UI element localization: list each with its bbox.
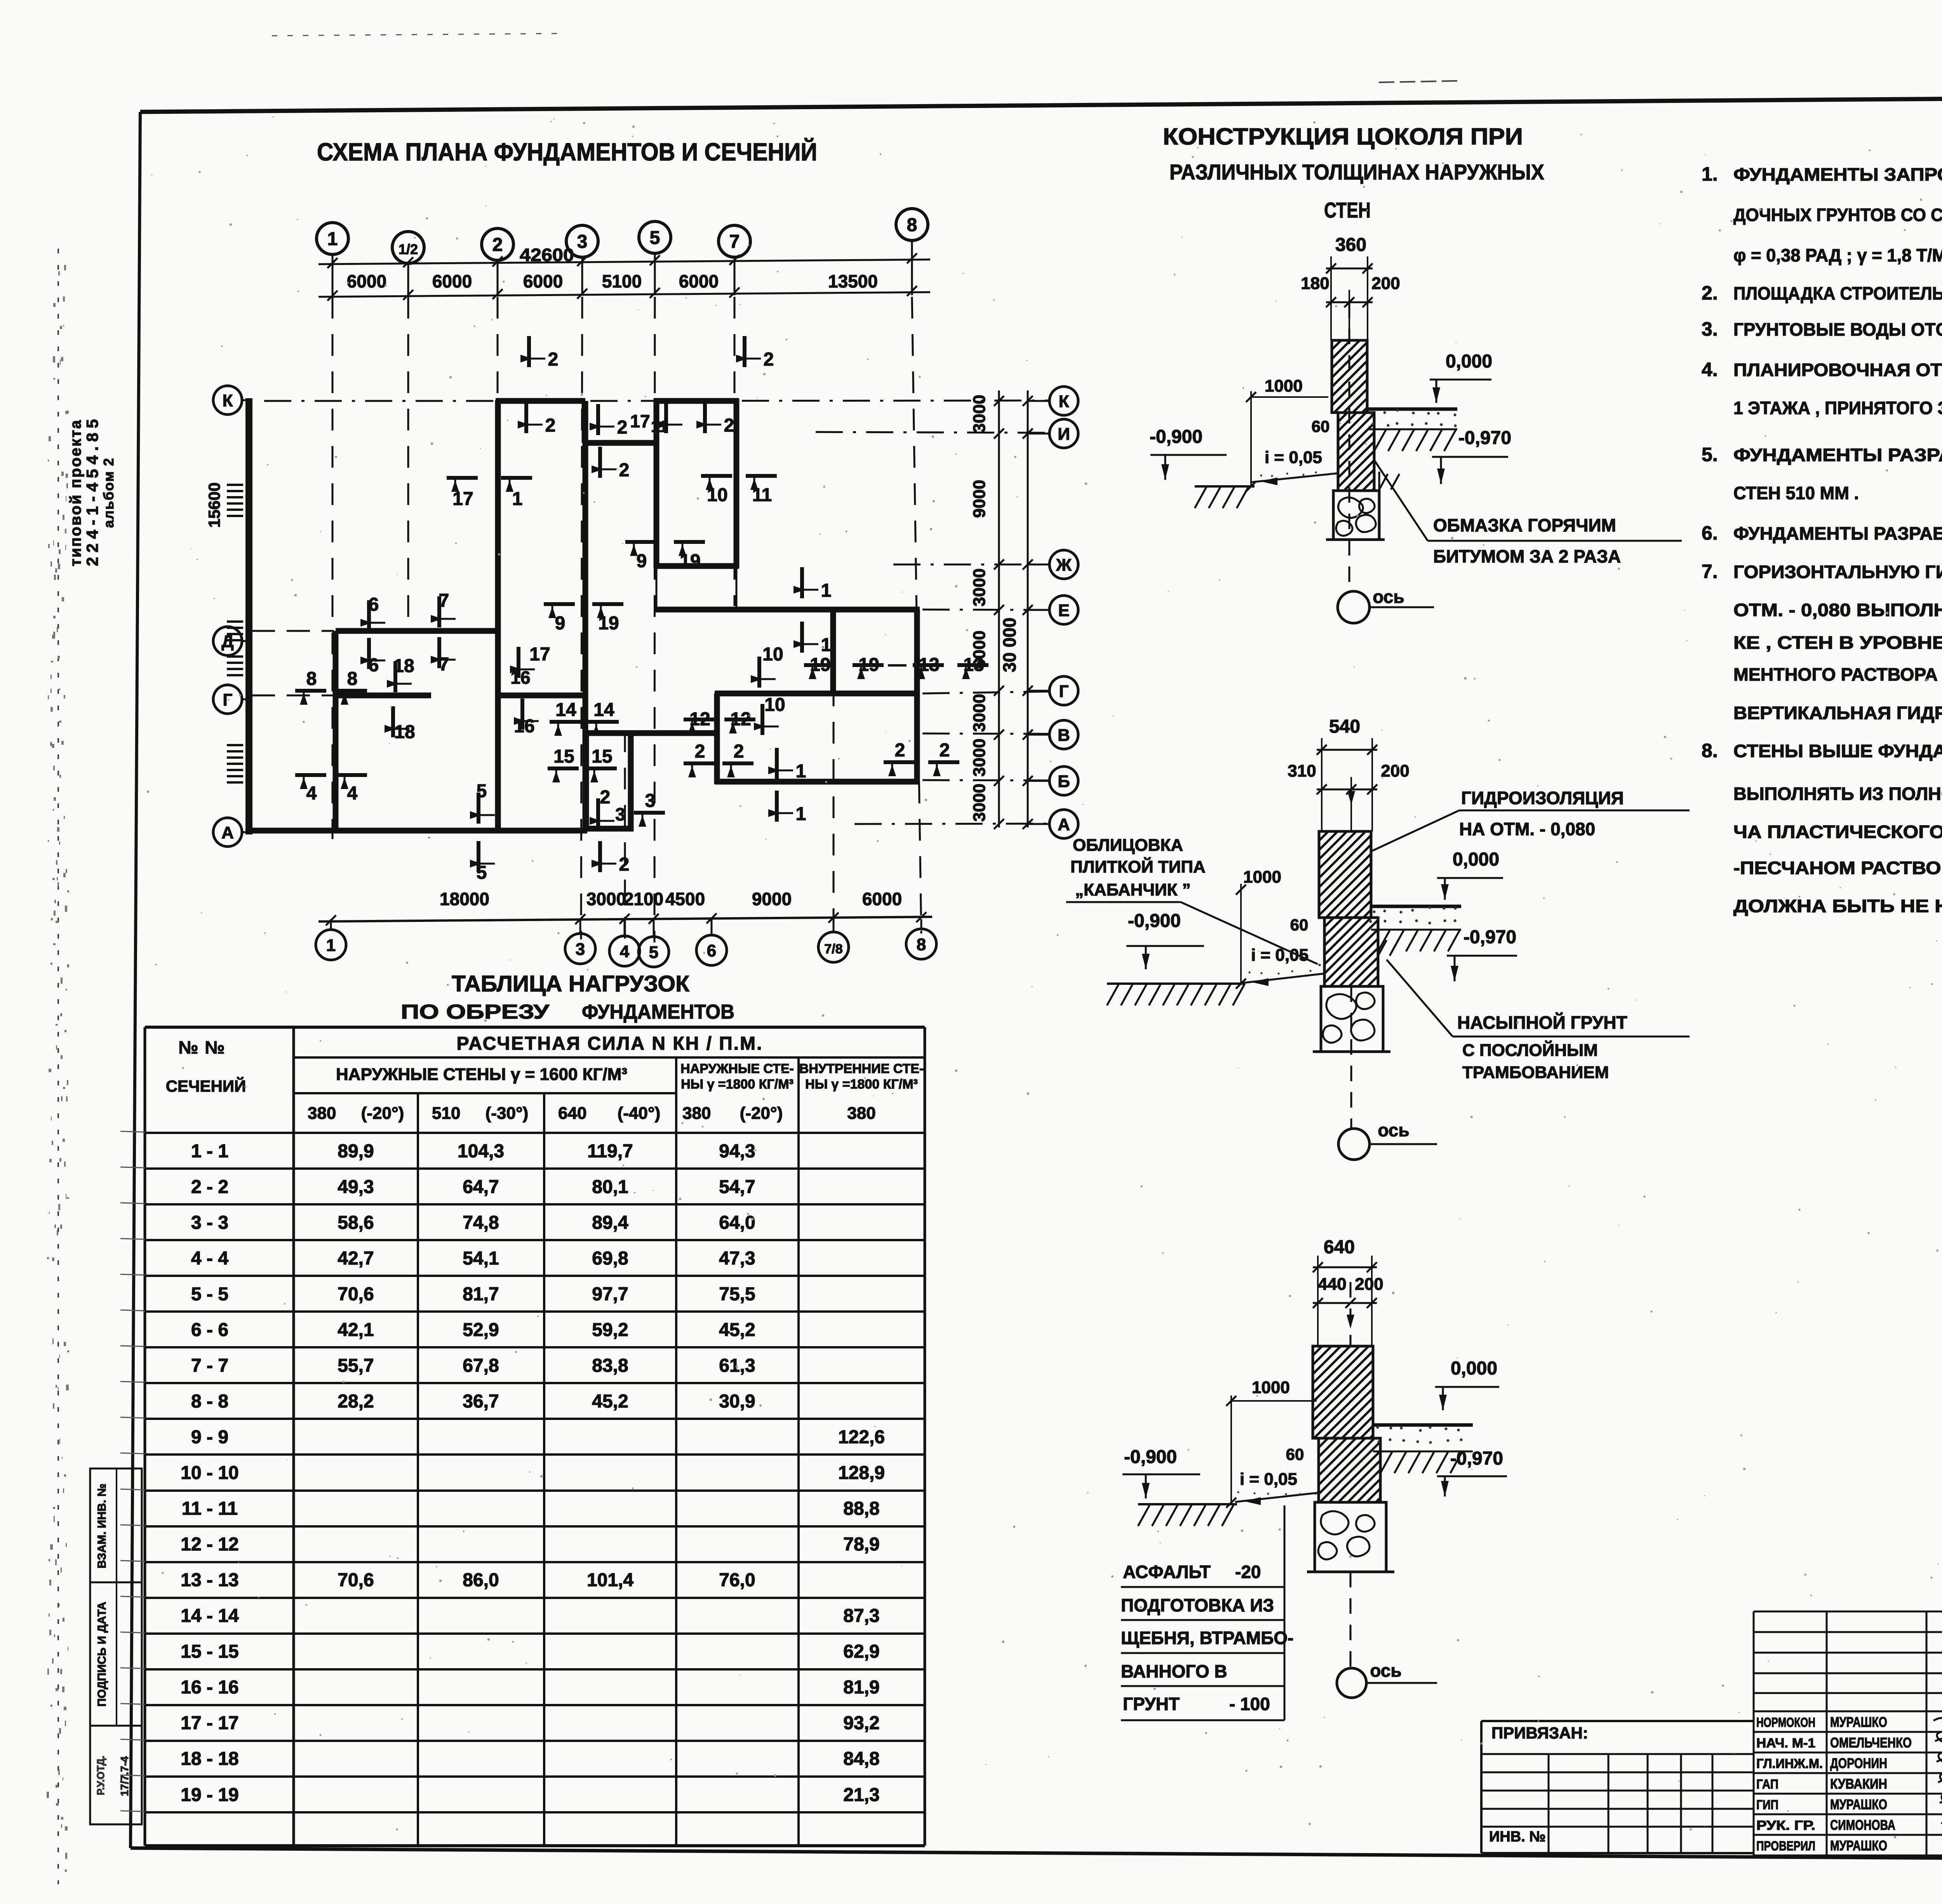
sheet frame left border <box>131 112 140 1848</box>
svg-text:ВЗАМ. ИНВ. №: ВЗАМ. ИНВ. № <box>96 1484 108 1568</box>
svg-text:Р.У.ОТД.: Р.У.ОТД. <box>95 1756 106 1795</box>
svg-text:8: 8 <box>347 669 358 689</box>
svg-text:8: 8 <box>907 215 917 235</box>
wall: tall right block <box>654 399 660 568</box>
wall: bottom outer (axis А) <box>246 828 587 834</box>
svg-text:83,8: 83,8 <box>592 1355 628 1376</box>
svg-text:7.: 7. <box>1702 561 1718 582</box>
row axis lines <box>264 400 493 402</box>
svg-text:3000: 3000 <box>970 694 989 732</box>
svg-text:ЧА ПЛАСТИЧЕСКОГО ПРЕССОВА: ЧА ПЛАСТИЧЕСКОГО ПРЕССОВАНИЯ (ГОСТ 530-8… <box>1733 822 1942 842</box>
svg-text:„КАБАНЧИК ”: „КАБАНЧИК ” <box>1075 880 1191 899</box>
title block: binding box (left) <box>1481 1720 1754 1722</box>
svg-text:МУРАШКО: МУРАШКО <box>1830 1838 1887 1853</box>
svg-text:10: 10 <box>762 644 783 665</box>
svg-text:1000: 1000 <box>1265 376 1303 395</box>
wall: small block left <box>583 733 589 831</box>
svg-text:15: 15 <box>592 746 612 767</box>
bottom dimension line <box>318 917 932 922</box>
svg-text:13: 13 <box>963 655 984 675</box>
svg-text:12 - 12: 12 - 12 <box>181 1534 238 1555</box>
s2 floor slab <box>1371 905 1461 908</box>
svg-text:ПЛАНИРОВОЧНАЯ ОТМЕТКА ЗЕМЛ: ПЛАНИРОВОЧНАЯ ОТМЕТКА ЗЕМЛИ ОТНОСИТЕЛЬНО… <box>1733 360 1942 380</box>
svg-text:НАРУЖНЫЕ СТЕ-: НАРУЖНЫЕ СТЕ- <box>680 1061 794 1076</box>
svg-text:55,7: 55,7 <box>338 1355 374 1376</box>
svg-text:СИМОНОВА: СИМОНОВА <box>1830 1817 1895 1833</box>
svg-text:89,4: 89,4 <box>592 1212 628 1233</box>
s3 material callouts <box>1284 1505 1286 1720</box>
svg-text:1: 1 <box>796 804 806 824</box>
wall: axis В horizontal <box>586 730 717 736</box>
svg-text:6: 6 <box>369 594 379 615</box>
top margin stray dashes <box>272 33 567 36</box>
svg-text:9: 9 <box>637 551 647 571</box>
svg-text:КОНСТРУКЦИЯ ЦОКОЛЯ ПРИ: КОНСТРУКЦИЯ ЦОКОЛЯ ПРИ <box>1163 124 1523 150</box>
svg-text:47,3: 47,3 <box>719 1248 755 1269</box>
svg-text:42,1: 42,1 <box>338 1320 374 1340</box>
svg-text:200: 200 <box>1355 1275 1383 1294</box>
svg-text:6000: 6000 <box>432 271 472 291</box>
svg-text:ПРОВЕРИЛ: ПРОВЕРИЛ <box>1756 1839 1815 1853</box>
svg-text:14 - 14: 14 - 14 <box>181 1606 239 1626</box>
svg-text:75,5: 75,5 <box>719 1284 755 1305</box>
wall: central block left (axis 2) <box>495 400 501 831</box>
svg-text:9000: 9000 <box>752 889 792 909</box>
svg-text:(-20°): (-20°) <box>361 1104 404 1123</box>
svg-text:i = 0,05: i = 0,05 <box>1240 1470 1297 1489</box>
column axis dash lines <box>332 297 334 839</box>
svg-text:ВАННОГО В: ВАННОГО В <box>1121 1661 1227 1681</box>
svg-text:ГРУНТОВЫЕ ВОДЫ ОТСУТСТВУЮТ.: ГРУНТОВЫЕ ВОДЫ ОТСУТСТВУЮТ. <box>1733 319 1942 340</box>
svg-text:-0,970: -0,970 <box>1450 1448 1503 1469</box>
svg-text:Б: Б <box>1058 772 1070 791</box>
svg-text:93,2: 93,2 <box>843 1713 879 1733</box>
column axis bubble 3 (top) <box>566 225 598 257</box>
svg-text:4 - 4: 4 - 4 <box>191 1248 228 1269</box>
svg-text:88,8: 88,8 <box>843 1498 879 1519</box>
svg-text:18 - 18: 18 - 18 <box>181 1749 238 1769</box>
svg-text:60: 60 <box>1286 1445 1304 1463</box>
svg-text:87,3: 87,3 <box>843 1606 879 1626</box>
svg-text:81,9: 81,9 <box>843 1677 879 1698</box>
svg-text:1: 1 <box>821 635 832 655</box>
svg-text:7 - 7: 7 - 7 <box>191 1355 228 1376</box>
svg-text:ДОЛЖНА БЫТЬ НЕ НИЖЕ М: ДОЛЖНА БЫТЬ НЕ НИЖЕ МРЗ 35 . <box>1733 896 1942 916</box>
svg-text:58,6: 58,6 <box>338 1212 374 1233</box>
title block: signature rows <box>1754 1711 1942 1712</box>
svg-text:380: 380 <box>847 1104 875 1123</box>
svg-text:5 - 5: 5 - 5 <box>191 1284 228 1305</box>
svg-text:11 - 11: 11 - 11 <box>182 1498 238 1519</box>
svg-text:РАЗЛИЧНЫХ ТОЛЩИНАХ НАРУЖНЫХ: РАЗЛИЧНЫХ ТОЛЩИНАХ НАРУЖНЫХ <box>1169 160 1544 184</box>
row axis bubble А (right) <box>1049 810 1078 838</box>
svg-text:ЩЕБНЯ, ВТРАМБО-: ЩЕБНЯ, ВТРАМБО- <box>1121 1628 1293 1648</box>
s3 foundation rubble <box>1315 1502 1386 1572</box>
svg-text:17 - 17: 17 - 17 <box>181 1713 238 1733</box>
svg-text:ПО ОБРЕЗУ: ПО ОБРЕЗУ <box>401 1001 550 1023</box>
svg-text:3: 3 <box>576 940 585 959</box>
row axis bubble Е (right) <box>1049 596 1078 624</box>
svg-text:18: 18 <box>394 722 415 742</box>
svg-text:1 ЭТАЖА , ПРИНЯТОГО ЗА 0,00: 1 ЭТАЖА , ПРИНЯТОГО ЗА 0,000 , РАВНА - 0… <box>1733 398 1942 418</box>
svg-text:Ж: Ж <box>1056 556 1072 575</box>
svg-text:11: 11 <box>651 417 668 435</box>
svg-text:СТЕН 510 ММ .: СТЕН 510 ММ . <box>1733 483 1859 503</box>
column axis bubble 5 (bottom) <box>639 937 669 967</box>
column axis bubble 7 (top) <box>719 225 750 257</box>
svg-text:-0,900: -0,900 <box>1128 911 1181 931</box>
svg-text:2: 2 <box>619 854 630 875</box>
svg-text:19: 19 <box>810 655 830 675</box>
row axis bubble Г (left) <box>213 685 242 714</box>
wall: vertical at axis 1/2 lower <box>333 631 339 831</box>
svg-text:2: 2 <box>619 460 630 481</box>
svg-text:1: 1 <box>327 229 338 249</box>
svg-text:10: 10 <box>764 695 785 715</box>
svg-text:45,2: 45,2 <box>592 1391 628 1412</box>
svg-text:11: 11 <box>752 485 772 505</box>
svg-text:21,3: 21,3 <box>843 1785 879 1805</box>
svg-text:РУК. ГР.: РУК. ГР. <box>1756 1818 1815 1833</box>
svg-text:ГРУНТ: ГРУНТ <box>1123 1694 1180 1714</box>
svg-text:2: 2 <box>492 235 503 255</box>
svg-text:60: 60 <box>1290 916 1309 934</box>
svg-text:0,000: 0,000 <box>1446 351 1492 372</box>
s3 ground line <box>1138 1503 1237 1505</box>
svg-text:380: 380 <box>682 1104 711 1123</box>
svg-text:ГИП: ГИП <box>1756 1798 1778 1812</box>
svg-text:ГАП: ГАП <box>1756 1777 1778 1792</box>
svg-text:-0,900: -0,900 <box>1124 1447 1177 1467</box>
svg-text:-20: -20 <box>1235 1562 1261 1582</box>
svg-text:19: 19 <box>680 551 700 571</box>
s1 foundation rubble <box>1333 491 1379 540</box>
svg-text:13500: 13500 <box>828 271 878 291</box>
svg-text:1: 1 <box>796 761 806 782</box>
svg-text:ПЛИТКОЙ ТИПА: ПЛИТКОЙ ТИПА <box>1070 857 1206 876</box>
svg-text:200: 200 <box>1371 274 1400 293</box>
column axis bubble 4 (bottom) <box>609 936 640 966</box>
svg-text:НАЧ. М-1: НАЧ. М-1 <box>1756 1736 1815 1751</box>
svg-text:49,3: 49,3 <box>338 1177 374 1197</box>
svg-text:ФУНДАМЕНТОВ: ФУНДАМЕНТОВ <box>582 1001 734 1023</box>
svg-text:НЫ γ =1800 КГ/М³: НЫ γ =1800 КГ/М³ <box>805 1077 918 1092</box>
svg-text:14: 14 <box>593 700 614 720</box>
svg-text:5: 5 <box>477 862 487 883</box>
svg-text:Г: Г <box>223 690 233 709</box>
svg-text:С ПОСЛОЙНЫМ: С ПОСЛОЙНЫМ <box>1462 1040 1598 1060</box>
svg-text:67,8: 67,8 <box>463 1355 499 1376</box>
wall: stub below Е <box>830 612 836 696</box>
wall: small block bottom <box>583 826 633 832</box>
svg-text:1000: 1000 <box>1243 868 1281 887</box>
svg-text:ПЛОЩАДКА СТРОИТЕЛЬСТВА СО: ПЛОЩАДКА СТРОИТЕЛЬСТВА СО СПОКОЙНЫМ РЕЛЬ… <box>1733 283 1942 303</box>
svg-text:КУВАКИН: КУВАКИН <box>1830 1776 1887 1792</box>
svg-text:СТЕН: СТЕН <box>1324 198 1371 222</box>
svg-text:-0,970: -0,970 <box>1463 927 1516 948</box>
svg-text:ГОРИЗОНТАЛЬНУЮ ГИДРОИЗОЛЯЦИЮ: ГОРИЗОНТАЛЬНУЮ ГИДРОИЗОЛЯЦИЮ СТЕН В УРОВ… <box>1733 562 1942 582</box>
svg-text:ПОДГОТОВКА ИЗ: ПОДГОТОВКА ИЗ <box>1121 1595 1274 1615</box>
svg-text:5: 5 <box>477 781 487 801</box>
svg-text:ОМЕЛЬЧЕНКО: ОМЕЛЬЧЕНКО <box>1830 1735 1912 1751</box>
svg-text:МУРАШКО: МУРАШКО <box>1830 1796 1887 1812</box>
svg-text:70,6: 70,6 <box>338 1284 374 1305</box>
svg-text:А: А <box>221 823 234 842</box>
svg-text:ПОДПИСЬ И ДАТА: ПОДПИСЬ И ДАТА <box>96 1602 108 1707</box>
sheet frame top border <box>140 94 1942 112</box>
s2 fill soil callout <box>1387 960 1453 1036</box>
svg-text:i = 0,05: i = 0,05 <box>1265 448 1322 467</box>
row axis bubble А (left) <box>213 818 242 847</box>
top dimension line 1 <box>318 260 930 264</box>
svg-text:84,8: 84,8 <box>843 1749 879 1769</box>
svg-text:ФУНДАМЕНТЫ ЗАПРОЕКТИРОВАНЫ Д: ФУНДАМЕНТЫ ЗАПРОЕКТИРОВАНЫ ДЛЯ СУХИХ НЕП… <box>1733 164 1942 185</box>
svg-text:ВЫПОЛНЯТЬ ИЗ ПОЛНОТЕЛОГО: ВЫПОЛНЯТЬ ИЗ ПОЛНОТЕЛОГО КРАСНОГО ХОРОШО… <box>1733 784 1942 804</box>
svg-text:-0,970: -0,970 <box>1458 428 1511 448</box>
svg-text:14: 14 <box>555 700 576 720</box>
title block: signatures squiggles <box>1933 1718 1942 1742</box>
svg-text:№ №: № № <box>178 1037 225 1057</box>
svg-text:2: 2 <box>695 741 705 762</box>
svg-text:94,3: 94,3 <box>719 1141 755 1162</box>
svg-text:1.: 1. <box>1702 163 1718 185</box>
svg-text:76,0: 76,0 <box>719 1570 755 1590</box>
svg-text:ИНВ. №: ИНВ. № <box>1489 1829 1546 1845</box>
svg-text:70,6: 70,6 <box>338 1570 374 1590</box>
svg-text:36,7: 36,7 <box>463 1391 499 1412</box>
s2 wall (hatched) <box>1319 831 1371 918</box>
svg-text:5: 5 <box>650 228 660 248</box>
svg-text:МЕНТНОГО РАСТВОРА СОСТАВ: МЕНТНОГО РАСТВОРА СОСТАВА 1:2 . <box>1733 664 1942 685</box>
svg-text:19: 19 <box>598 613 619 634</box>
wall: axis Д horizontal <box>336 628 500 634</box>
svg-text:4.: 4. <box>1702 359 1718 380</box>
row axis bubble К (left) <box>213 386 242 415</box>
svg-text:4: 4 <box>620 942 630 961</box>
svg-text:φ = 0,38 РАД ; γ = 1,8 Т/М³: φ = 0,38 РАД ; γ = 1,8 Т/М³ ; Е = 15 МПа… <box>1733 245 1942 265</box>
scan page-edge shadow line <box>57 249 59 1884</box>
svg-text:8: 8 <box>306 669 317 689</box>
column axis bubble 8 (top) <box>896 209 928 240</box>
svg-text:7: 7 <box>439 591 449 611</box>
s3 axis bubble <box>1350 1572 1352 1668</box>
wall: big right block top (axis Г) <box>715 691 920 697</box>
svg-text:Г: Г <box>1059 682 1069 701</box>
svg-text:(-40°): (-40°) <box>618 1104 661 1123</box>
svg-text:3000: 3000 <box>586 889 626 909</box>
svg-text:3000: 3000 <box>970 568 989 606</box>
svg-text:5.: 5. <box>1702 444 1718 465</box>
svg-text:ФУНДАМЕНТЫ РАЗРАБОТАНЫ ДЛЯ: ФУНДАМЕНТЫ РАЗРАБОТАНЫ ДЛЯ ЗДАНИЯ С ТОЛЩ… <box>1733 445 1942 465</box>
svg-text:альбом 2: альбом 2 <box>101 457 117 528</box>
svg-text:119,7: 119,7 <box>587 1141 633 1162</box>
svg-text:2: 2 <box>548 349 559 370</box>
svg-text:1/2: 1/2 <box>398 241 418 257</box>
load table grid <box>145 1026 925 1029</box>
svg-text:-0,900: -0,900 <box>1150 427 1202 447</box>
svg-text:2: 2 <box>940 740 950 761</box>
svg-text:17: 17 <box>529 644 550 665</box>
svg-text:ОБМАЗКА ГОРЯЧИМ: ОБМАЗКА ГОРЯЧИМ <box>1433 515 1616 535</box>
wall hatch ladders (left outer wall) <box>227 484 243 486</box>
svg-text:10 - 10: 10 - 10 <box>181 1463 238 1483</box>
column axis bubble 1 (top) <box>317 223 348 254</box>
svg-text:16 - 16: 16 - 16 <box>181 1677 238 1698</box>
svg-text:42,7: 42,7 <box>338 1248 374 1269</box>
svg-text:18000: 18000 <box>440 889 489 909</box>
svg-text:2 2 4 - 1 - 4 5 4 . 8 5: 2 2 4 - 1 - 4 5 4 . 8 5 <box>83 419 101 566</box>
svg-text:4: 4 <box>347 783 358 804</box>
svg-text:64,0: 64,0 <box>719 1212 755 1233</box>
column axis bubble 1/2 (top) <box>392 232 424 263</box>
svg-text:- 100: - 100 <box>1229 1694 1270 1714</box>
svg-text:45,2: 45,2 <box>719 1320 755 1340</box>
svg-text:2: 2 <box>600 787 611 808</box>
svg-text:6: 6 <box>707 941 716 960</box>
svg-text:19 - 19: 19 - 19 <box>181 1785 238 1805</box>
svg-text:510: 510 <box>432 1104 460 1123</box>
top dimension line 2 <box>318 292 930 297</box>
wall: central block Г crossing <box>498 693 585 699</box>
svg-text:12: 12 <box>730 709 751 730</box>
svg-text:3: 3 <box>615 804 625 824</box>
row axis bubble И (right) <box>1049 419 1078 448</box>
left edge scan fuzz <box>47 265 69 1872</box>
svg-text:КЕ , СТЕН В УРОВНЕ ОТМЕТО: КЕ , СТЕН В УРОВНЕ ОТМЕТОК - 0,900 ; - 0… <box>1733 632 1942 653</box>
svg-text:ОБЛИЦОВКА: ОБЛИЦОВКА <box>1073 836 1183 855</box>
svg-text:18: 18 <box>393 656 414 676</box>
svg-text:60: 60 <box>1312 417 1330 435</box>
table row-line left stubs <box>120 1131 145 1132</box>
svg-text:ось: ось <box>1378 1120 1409 1140</box>
row axis bubble В (right) <box>1049 720 1078 749</box>
s1 bitumen coating callout <box>1375 461 1428 541</box>
svg-text:ОТМ. - 0,080 ВЫПОЛНЯТЬ ИЗ: ОТМ. - 0,080 ВЫПОЛНЯТЬ ИЗ 2ˣ СЛОЕВ ГИДРО… <box>1733 600 1942 620</box>
wall: big right block left <box>714 693 720 784</box>
sheet frame bottom border <box>131 1848 1942 1861</box>
svg-text:8: 8 <box>917 935 926 954</box>
svg-text:9 - 9: 9 - 9 <box>191 1427 228 1448</box>
column axis bubble 2 (top) <box>482 228 513 260</box>
svg-text:1 - 1: 1 - 1 <box>191 1141 228 1162</box>
s2 axis bubble <box>1350 986 1352 1129</box>
svg-text:БИТУМОМ ЗА 2 РАЗА: БИТУМОМ ЗА 2 РАЗА <box>1433 546 1621 566</box>
wall: notch block horizontal <box>583 440 656 446</box>
svg-text:3000: 3000 <box>970 784 989 822</box>
svg-text:69,8: 69,8 <box>592 1248 628 1269</box>
svg-text:12: 12 <box>689 709 710 730</box>
svg-text:типовой проекта: типовой проекта <box>67 419 84 566</box>
svg-text:i = 0,05: i = 0,05 <box>1251 946 1309 965</box>
svg-text:Е: Е <box>1058 601 1069 620</box>
column axis bubble 5 (top) <box>639 221 671 253</box>
svg-text:2100: 2100 <box>624 889 663 909</box>
svg-text:0,000: 0,000 <box>1453 849 1499 870</box>
svg-text:ТАБЛИЦА НАГРУЗОК: ТАБЛИЦА НАГРУЗОК <box>452 971 690 996</box>
s1 floor slab <box>1368 408 1457 411</box>
svg-text:(-30°): (-30°) <box>486 1104 529 1123</box>
svg-text:ось: ось <box>1373 587 1404 607</box>
svg-text:В: В <box>1058 726 1070 745</box>
svg-text:15 - 15: 15 - 15 <box>181 1641 238 1662</box>
column axis bubble 8 (bottom) <box>906 929 936 959</box>
row axis bubble Б (right) <box>1049 766 1078 795</box>
svg-text:6000: 6000 <box>523 271 563 291</box>
svg-text:15: 15 <box>553 746 574 767</box>
svg-text:2: 2 <box>734 741 744 762</box>
svg-text:180: 180 <box>1301 274 1329 293</box>
svg-text:И: И <box>1058 425 1070 444</box>
svg-text:6: 6 <box>369 655 379 676</box>
svg-text:64,7: 64,7 <box>463 1177 499 1197</box>
svg-text:3 - 3: 3 - 3 <box>191 1212 228 1233</box>
s1 wall (hatched) <box>1332 340 1367 413</box>
svg-text:97,7: 97,7 <box>592 1284 628 1305</box>
svg-text:ВЕРТИКАЛЬНАЯ ГИДРОИЗОЛЯЦИЯ: ВЕРТИКАЛЬНАЯ ГИДРОИЗОЛЯЦИЯ - ОБМАЗКА ГОР… <box>1733 703 1942 723</box>
svg-text:3000: 3000 <box>970 395 989 433</box>
svg-text:59,2: 59,2 <box>592 1320 628 1340</box>
column axis bubble 6 (bottom) <box>696 935 727 965</box>
wall: big right block bottom (axis Б) <box>715 779 920 785</box>
svg-text:80,1: 80,1 <box>592 1177 628 1197</box>
svg-text:17: 17 <box>452 489 473 509</box>
svg-text:3.: 3. <box>1702 318 1718 340</box>
svg-text:7/8: 7/8 <box>824 942 842 956</box>
title block: small revision grid <box>1754 1611 1942 1613</box>
svg-text:122,6: 122,6 <box>838 1427 885 1448</box>
svg-text:7: 7 <box>729 232 740 252</box>
s3 floor slab <box>1373 1423 1473 1427</box>
svg-text:128,9: 128,9 <box>838 1463 885 1483</box>
svg-text:13: 13 <box>919 655 939 675</box>
svg-text:54,1: 54,1 <box>463 1248 499 1269</box>
wall: central block right (axis 3) <box>583 401 588 831</box>
svg-text:РАСЧЕТНАЯ СИЛА N КН /: РАСЧЕТНАЯ СИЛА N КН / П.М. <box>457 1033 763 1054</box>
s2 ground line <box>1107 982 1245 985</box>
svg-text:81,7: 81,7 <box>463 1284 499 1305</box>
svg-text:17/7.7-4: 17/7.7-4 <box>118 1756 131 1796</box>
svg-text:-ПЕСЧАНОМ РАСТВОРЕ МАРКИ: -ПЕСЧАНОМ РАСТВОРЕ МАРКИ 25 . МАРКА КИРП… <box>1733 858 1942 878</box>
wall: axis Г horizontal (left) <box>336 693 431 699</box>
svg-text:К: К <box>1059 392 1069 411</box>
svg-text:30,9: 30,9 <box>719 1391 755 1412</box>
left margin stamp boxes <box>90 1469 142 1824</box>
svg-text:640: 640 <box>558 1104 586 1123</box>
svg-text:6.: 6. <box>1702 522 1718 544</box>
svg-text:ДОРОНИН: ДОРОНИН <box>1830 1755 1887 1771</box>
svg-text:13 - 13: 13 - 13 <box>181 1570 238 1590</box>
svg-text:—: — <box>888 654 906 674</box>
svg-text:78,9: 78,9 <box>843 1534 879 1555</box>
svg-text:НАСЫПНОЙ ГРУНТ: НАСЫПНОЙ ГРУНТ <box>1457 1012 1627 1033</box>
svg-text:ФУНДАМЕНТЫ РАЗРАБОТАНЫ И: ФУНДАМЕНТЫ РАЗРАБОТАНЫ ИЗ БУТОБЕТОНА , Б… <box>1733 523 1942 544</box>
column axis bubble 3 (bottom) <box>565 934 595 964</box>
svg-text:640: 640 <box>1324 1237 1355 1258</box>
column axis bubble 1 (bottom) <box>316 930 346 960</box>
svg-text:2: 2 <box>764 349 774 370</box>
right vertical dimension lines <box>998 390 1000 827</box>
svg-text:СЕЧЕНИЙ: СЕЧЕНИЙ <box>166 1077 246 1095</box>
svg-text:9000: 9000 <box>970 480 989 518</box>
svg-text:5100: 5100 <box>602 271 642 291</box>
svg-text:6000: 6000 <box>862 889 902 909</box>
svg-text:30 000: 30 000 <box>999 618 1020 672</box>
svg-text:НА ОТМ. - 0,080: НА ОТМ. - 0,080 <box>1459 819 1595 839</box>
svg-text:6000: 6000 <box>347 271 386 291</box>
svg-text:52,9: 52,9 <box>463 1320 499 1340</box>
svg-text:А: А <box>1058 815 1070 834</box>
svg-text:НАРУЖНЫЕ СТЕНЫ γ = 1600 КГ: НАРУЖНЫЕ СТЕНЫ γ = 1600 КГ/М³ <box>336 1065 627 1084</box>
